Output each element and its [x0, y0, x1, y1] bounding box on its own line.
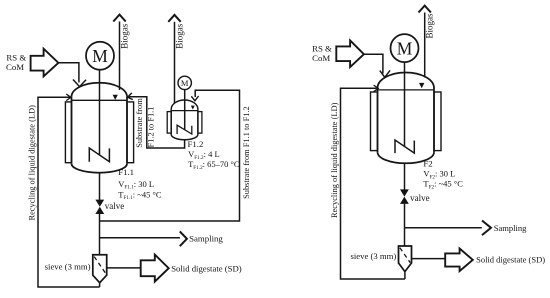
label RS & CoM (left feed)	[6, 53, 26, 72]
svg-text:TF2: ~45 °C: TF2: ~45 °C	[423, 179, 463, 191]
agitator blade F2	[395, 140, 414, 153]
label Solid digestate (SD) left	[171, 263, 242, 273]
svg-text:valve: valve	[410, 193, 430, 203]
solid digestate block arrow (left)	[141, 255, 169, 282]
feed arrowhead into F2 dome	[380, 70, 390, 77]
svg-text:Substrate from: Substrate from	[135, 98, 144, 148]
motor M of F1.1	[86, 42, 114, 70]
outlet pipe F2 to valve	[404, 163, 406, 190]
label Sampling (left)	[189, 234, 223, 244]
svg-text:F1.1: F1.1	[118, 167, 134, 177]
svg-text:Solid digestate (SD): Solid digestate (SD)	[171, 263, 242, 273]
label F1.2 data block	[188, 139, 240, 171]
sieve bottom stub (right)	[404, 272, 406, 279]
svg-text:F2: F2	[423, 159, 432, 169]
label sieve (3 mm) right	[350, 251, 396, 261]
sieve (left)	[93, 255, 107, 283]
substrate return pipe F1.2 to F1.1	[129, 97, 185, 148]
valve (left)	[95, 200, 104, 214]
sieve (right)	[399, 246, 412, 272]
label Biogas (F1.2)	[175, 23, 185, 48]
sampling arrowhead (left)	[180, 231, 187, 246]
svg-text:CoM: CoM	[312, 53, 330, 63]
feed pipe into F1.1	[58, 63, 79, 83]
svg-text:Substrate from F1.1 to F1.2: Substrate from F1.1 to F1.2	[242, 106, 251, 199]
label Biogas (F2)	[425, 13, 435, 38]
fermenter F1.2 vessel	[171, 100, 198, 140]
label Solid digestate (SD) right	[476, 254, 545, 264]
label RS & CoM (right feed)	[312, 43, 332, 63]
solid digestate block arrow (right)	[445, 249, 473, 272]
biogas arrowhead (F1.2)	[168, 15, 180, 22]
svg-text:F1.2: F1.2	[188, 139, 204, 149]
LD recycle pipe (right diagram)	[341, 88, 405, 279]
biogas arrowhead (F1.1)	[113, 15, 125, 22]
svg-text:M: M	[397, 38, 413, 58]
label valve (left)	[105, 201, 125, 211]
feed block arrow (left)	[31, 49, 59, 77]
F1.2 left jacket	[167, 112, 171, 134]
solid digestate pipe (right)	[412, 258, 446, 260]
svg-text:sieve (3 mm): sieve (3 mm)	[350, 251, 396, 261]
svg-text:Biogas: Biogas	[120, 23, 130, 48]
agitator shaft F2	[404, 62, 406, 147]
fermenter F2 vessel	[378, 73, 435, 164]
label Biogas (F1.1)	[120, 23, 130, 48]
label F1.1 data block	[118, 167, 162, 201]
svg-text:TF1.1: ~45 °C: TF1.1: ~45 °C	[118, 189, 162, 201]
svg-text:CoM: CoM	[6, 62, 24, 72]
LD arrowhead into F1.1	[66, 94, 71, 101]
F1.1 right heating jacket	[127, 102, 134, 163]
svg-text:Solid digestate (SD): Solid digestate (SD)	[476, 254, 545, 264]
svg-text:Recycling of liquid digestate: Recycling of liquid digestate (LD)	[330, 102, 339, 218]
svg-text:RS &: RS &	[312, 43, 332, 53]
svg-text:Biogas: Biogas	[425, 13, 435, 38]
svg-text:sieve (3 mm): sieve (3 mm)	[45, 262, 91, 272]
agitator shaft F1.2	[184, 90, 186, 130]
sampling arrowhead (right)	[482, 221, 491, 236]
outlet pipe below valve (left)	[99, 214, 101, 255]
liquid level mark F2	[419, 83, 424, 88]
motor M of F1.2	[178, 76, 191, 89]
solid digestate pipe (left)	[107, 267, 141, 269]
liquid level mark F1.1	[113, 95, 118, 100]
motor M of F2	[391, 34, 419, 62]
substrate pipe F1.1 to F1.2	[100, 90, 240, 221]
svg-text:Sampling: Sampling	[494, 223, 527, 233]
label Substrate from F1.2 to F1.1 (two rotated lines)	[135, 98, 156, 148]
svg-text:Biogas: Biogas	[175, 23, 185, 48]
agitator shaft F1.1	[99, 70, 101, 155]
label Recycling of liquid digestate (LD) right	[330, 102, 339, 218]
LD recycle pipe (left diagram)	[38, 97, 100, 287]
svg-text:valve: valve	[105, 201, 125, 211]
label Substrate from F1.1 to F1.2	[242, 106, 251, 199]
F1.2 right jacket	[198, 112, 202, 134]
svg-text:Recycling of liquid digestate: Recycling of liquid digestate (LD)	[28, 105, 37, 221]
svg-text:Sampling: Sampling	[189, 234, 223, 244]
agitator blade F1.2	[177, 125, 192, 134]
svg-text:M: M	[181, 78, 189, 88]
svg-text:M: M	[92, 46, 108, 66]
sampling pipe (left)	[100, 237, 181, 239]
feed block arrow (right)	[336, 40, 364, 67]
feed pipe into F2	[364, 54, 383, 73]
outlet pipe below valve (right)	[404, 204, 406, 246]
outlet pipe F1.1 to valve	[99, 173, 101, 201]
sampling pipe (right)	[405, 227, 482, 229]
F2 right heating jacket	[434, 92, 441, 151]
biogas arrowhead (F2)	[419, 6, 431, 13]
LD arrowhead into F2	[374, 85, 379, 92]
fermenter F1.1 vessel	[72, 83, 128, 173]
arrowhead into F1.1 dome right	[128, 93, 133, 100]
biogas pipe from F1.2	[174, 22, 176, 104]
sieve bottom stub (left)	[99, 283, 101, 287]
label F2 data block	[423, 159, 463, 191]
biogas pipe from F2	[424, 13, 426, 78]
valve (right)	[400, 189, 409, 204]
label valve (right)	[410, 193, 430, 203]
feed arrowhead into F1.1 dome	[73, 80, 86, 87]
biogas pipe from F1.1	[119, 22, 121, 91]
label sieve (3 mm) left	[45, 262, 91, 272]
F2 left heating jacket	[371, 92, 378, 151]
liquid level mark F1.2	[191, 106, 195, 110]
label Sampling (right)	[494, 223, 527, 233]
label Recycling of liquid digestate (LD) left	[28, 105, 37, 221]
F1.1 left heating jacket	[65, 102, 71, 163]
arrowhead into F1.2 dome	[191, 96, 198, 101]
agitator blade F1.1	[89, 148, 109, 162]
svg-text:F1.2 to F1.1: F1.2 to F1.1	[146, 107, 155, 148]
